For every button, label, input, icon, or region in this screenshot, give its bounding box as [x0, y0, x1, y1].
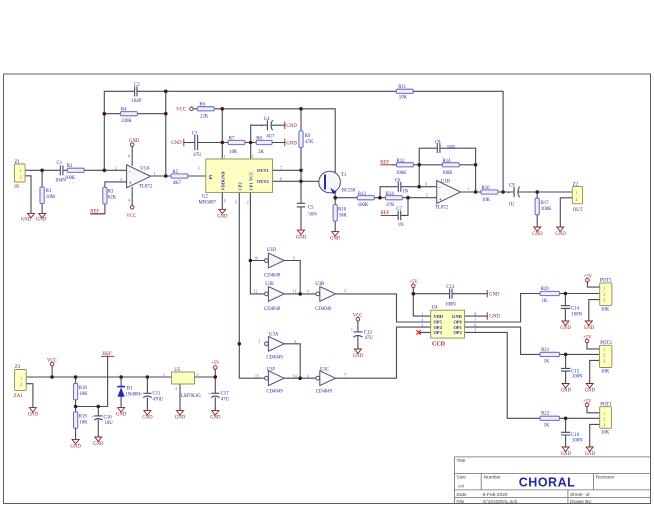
svg-text:GND: GND — [353, 354, 364, 359]
svg-text:U3E: U3E — [265, 282, 274, 287]
svg-text:100N: 100N — [445, 303, 456, 308]
svg-text:C3: C3 — [192, 131, 198, 136]
svg-text:47K: 47K — [305, 140, 314, 145]
svg-text:C4: C4 — [264, 117, 270, 122]
svg-text:1: 1 — [163, 373, 165, 377]
svg-text:GND: GND — [585, 452, 596, 457]
svg-text:2: 2 — [115, 167, 117, 171]
svg-text:5: 5 — [426, 194, 428, 198]
svg-text:2: 2 — [603, 293, 605, 297]
svg-text:R16: R16 — [482, 186, 491, 191]
svg-text:100K: 100K — [396, 171, 407, 176]
svg-text:OUT2: OUT2 — [257, 179, 269, 184]
svg-text:47K: 47K — [386, 203, 395, 208]
svg-text:Title: Title — [457, 458, 466, 464]
svg-text:3: 3 — [197, 373, 199, 377]
svg-text:1: 1 — [224, 155, 226, 159]
svg-text:62K: 62K — [108, 196, 117, 201]
svg-text:CD4049: CD4049 — [266, 389, 283, 394]
svg-text:6: 6 — [307, 374, 309, 378]
svg-text:+5V: +5V — [583, 336, 592, 341]
svg-text:2: 2 — [258, 340, 260, 344]
svg-text:10: 10 — [254, 256, 258, 260]
svg-text:100K: 100K — [65, 176, 76, 181]
svg-text:56K: 56K — [339, 214, 348, 219]
svg-text:U3A: U3A — [269, 332, 279, 337]
svg-text:R8: R8 — [256, 137, 262, 142]
svg-text:4: 4 — [307, 290, 309, 294]
svg-text:TL072: TL072 — [435, 206, 449, 211]
svg-text:4K7: 4K7 — [173, 181, 182, 186]
svg-text:3: 3 — [294, 340, 296, 344]
svg-text:OP2: OP2 — [454, 330, 462, 335]
svg-text:POT1: POT1 — [600, 403, 612, 408]
svg-text:4: 4 — [224, 199, 226, 203]
svg-text:C1: C1 — [57, 161, 63, 166]
svg-text:MN3007: MN3007 — [199, 201, 217, 206]
svg-text:7: 7 — [474, 318, 476, 322]
svg-text:47U: 47U — [193, 153, 202, 158]
svg-text:U4: U4 — [432, 306, 438, 311]
svg-text:C16: C16 — [571, 433, 580, 438]
svg-text:IN: IN — [208, 174, 213, 180]
svg-text:47U: 47U — [365, 336, 374, 341]
svg-text:22K: 22K — [200, 114, 209, 119]
svg-text:C8: C8 — [435, 141, 441, 146]
svg-text:GND: GND — [28, 413, 39, 418]
svg-text:GND: GND — [489, 315, 500, 320]
svg-text:VCC: VCC — [176, 108, 186, 113]
svg-text:U3B: U3B — [315, 282, 324, 287]
svg-text:U3F: U3F — [267, 367, 276, 372]
svg-text:10K: 10K — [482, 198, 491, 203]
svg-text:10M: 10M — [46, 195, 56, 200]
svg-text:GND: GND — [116, 413, 127, 418]
svg-text:VDD: VDD — [220, 181, 225, 191]
svg-text:GND: GND — [555, 232, 566, 237]
svg-text:6: 6 — [235, 200, 237, 204]
svg-text:7: 7 — [468, 188, 470, 192]
svg-text:R10: R10 — [338, 208, 347, 213]
svg-text:GND: GND — [584, 326, 595, 331]
svg-text:2: 2 — [247, 200, 249, 204]
svg-text:6: 6 — [474, 323, 476, 327]
svg-text:GND: GND — [36, 218, 47, 223]
svg-text:U1B: U1B — [441, 179, 450, 184]
svg-text:GND: GND — [585, 389, 596, 394]
svg-text:C5: C5 — [308, 205, 314, 210]
svg-text:1U: 1U — [509, 202, 515, 207]
svg-text:R9: R9 — [305, 134, 311, 139]
svg-text:GND: GND — [452, 314, 462, 319]
svg-text:56N: 56N — [308, 212, 317, 217]
svg-text:GND: GND — [286, 141, 297, 146]
svg-text:2: 2 — [175, 387, 177, 391]
svg-text:R13: R13 — [358, 192, 367, 197]
svg-text:100K: 100K — [442, 171, 453, 176]
svg-text:10K: 10K — [601, 370, 610, 375]
svg-text:VDD: VDD — [434, 314, 444, 319]
svg-text:POT2: POT2 — [600, 341, 612, 346]
svg-text:220K: 220K — [121, 119, 132, 124]
svg-text:33N: 33N — [446, 145, 455, 150]
svg-text:10K: 10K — [399, 96, 408, 101]
svg-text:104P: 104P — [132, 99, 142, 104]
svg-text:File: File — [457, 499, 465, 505]
svg-text:Z3: Z3 — [15, 365, 21, 370]
svg-text:4: 4 — [128, 198, 130, 202]
svg-text:+5V: +5V — [583, 275, 592, 280]
svg-text:R1: R1 — [46, 189, 52, 194]
svg-text:6: 6 — [425, 183, 427, 187]
svg-text:C17: C17 — [221, 392, 230, 397]
svg-text:7: 7 — [280, 166, 282, 170]
svg-text:OP4: OP4 — [434, 325, 443, 330]
svg-text:1K: 1K — [544, 423, 550, 428]
svg-text:4U7: 4U7 — [266, 134, 275, 139]
svg-text:3: 3 — [603, 424, 605, 428]
svg-text:+5V: +5V — [211, 361, 220, 366]
svg-text:OP3: OP3 — [434, 330, 443, 335]
svg-text:GND: GND — [560, 326, 571, 331]
svg-text:Revision: Revision — [596, 475, 615, 481]
svg-text:R19: R19 — [79, 415, 88, 420]
svg-text:+: + — [439, 198, 442, 203]
svg-text:C13: C13 — [446, 285, 455, 290]
svg-text:Drawn By:: Drawn By: — [570, 499, 592, 505]
svg-text:10K: 10K — [229, 150, 238, 155]
svg-text:C15: C15 — [571, 369, 580, 374]
svg-text:2: 2 — [603, 354, 605, 358]
svg-text:POT3: POT3 — [600, 278, 612, 283]
svg-text:CP2: CP2 — [237, 182, 242, 190]
svg-text:CD4049: CD4049 — [316, 389, 333, 394]
svg-text:2: 2 — [603, 418, 605, 422]
svg-text:TL072: TL072 — [139, 185, 153, 190]
svg-text:2: 2 — [421, 318, 423, 322]
svg-text:1: 1 — [20, 376, 22, 380]
svg-text:of: of — [586, 492, 591, 498]
svg-text:R4: R4 — [121, 108, 127, 113]
svg-text:R5: R5 — [172, 170, 178, 175]
svg-text:R20: R20 — [541, 287, 550, 292]
svg-text:C2: C2 — [134, 83, 140, 88]
svg-text:D1: D1 — [127, 387, 133, 392]
svg-text:R22: R22 — [541, 412, 550, 417]
svg-text:CD4049: CD4049 — [266, 356, 283, 361]
svg-text:VCC: VCC — [248, 172, 253, 182]
svg-text:470U: 470U — [153, 397, 164, 402]
svg-text:47U: 47U — [221, 397, 230, 402]
svg-text:1: 1 — [603, 286, 605, 290]
svg-text:C10: C10 — [104, 416, 113, 421]
svg-text:8: 8 — [280, 177, 282, 181]
svg-text:GND: GND — [129, 139, 140, 144]
svg-text:11: 11 — [293, 290, 297, 294]
svg-text:OP1: OP1 — [454, 325, 462, 330]
svg-text:CD4049: CD4049 — [315, 307, 332, 312]
svg-text:CD4049: CD4049 — [264, 273, 281, 278]
svg-text:5: 5 — [252, 155, 254, 159]
svg-text:2: 2 — [20, 383, 22, 387]
svg-text:+5V: +5V — [583, 400, 592, 405]
svg-text:1: 1 — [421, 312, 423, 316]
svg-text:R11: R11 — [398, 85, 406, 90]
svg-text:IN: IN — [14, 185, 20, 190]
svg-text:CHORAL: CHORAL — [519, 476, 575, 490]
svg-text:100N: 100N — [572, 439, 583, 444]
svg-text:1: 1 — [576, 192, 578, 196]
svg-text:1N: 1N — [398, 223, 404, 228]
svg-text:OUT1: OUT1 — [257, 168, 269, 173]
svg-text:GND: GND — [561, 452, 572, 457]
svg-text:10K: 10K — [601, 307, 610, 312]
svg-text:U3D: U3D — [267, 248, 277, 253]
svg-text:GND: GND — [171, 141, 182, 146]
svg-text:+5V: +5V — [409, 280, 418, 285]
svg-text:100N: 100N — [571, 312, 582, 317]
svg-text:S:\CHORAL.sch: S:\CHORAL.sch — [483, 499, 518, 505]
svg-text:+: + — [129, 182, 132, 187]
svg-text:GND: GND — [296, 235, 307, 240]
svg-text:3: 3 — [603, 360, 605, 364]
svg-text:ZA1: ZA1 — [14, 394, 23, 399]
svg-text:Z1: Z1 — [15, 160, 21, 165]
svg-text:R6: R6 — [199, 103, 205, 108]
svg-text:3: 3 — [120, 178, 122, 182]
svg-text:8: 8 — [474, 312, 476, 316]
svg-text:R34: R34 — [386, 192, 395, 197]
svg-text:GND: GND — [561, 389, 572, 394]
svg-text:2: 2 — [576, 198, 578, 202]
svg-text:GND: GND — [142, 416, 153, 421]
svg-text:8: 8 — [128, 154, 130, 158]
svg-text:GND: GND — [532, 232, 543, 237]
svg-text:CD4049: CD4049 — [264, 307, 281, 312]
svg-text:1: 1 — [154, 172, 156, 176]
svg-text:10K: 10K — [79, 392, 88, 397]
svg-text:VCC: VCC — [353, 313, 363, 318]
svg-text:GND: GND — [70, 444, 81, 449]
svg-text:3: 3 — [198, 166, 200, 170]
svg-text:GND: GND — [220, 172, 225, 182]
svg-text:GND: GND — [210, 416, 221, 421]
svg-text:GND: GND — [21, 218, 32, 223]
svg-text:R3: R3 — [108, 190, 114, 195]
svg-text:R21: R21 — [541, 348, 550, 353]
svg-text:10K: 10K — [79, 420, 88, 425]
svg-text:U1A: U1A — [140, 166, 150, 171]
svg-text:100K: 100K — [541, 207, 552, 212]
svg-text:CP1: CP1 — [248, 182, 253, 190]
svg-text:1K: 1K — [544, 359, 550, 364]
svg-text:GND: GND — [175, 416, 186, 421]
svg-text:U3C: U3C — [320, 367, 329, 372]
svg-text:14: 14 — [293, 374, 297, 378]
svg-text:1N: 1N — [402, 190, 408, 195]
svg-text:GND: GND — [286, 124, 297, 129]
svg-text:C7: C7 — [396, 207, 402, 212]
svg-text:3: 3 — [421, 323, 423, 327]
svg-text:2: 2 — [20, 176, 22, 180]
svg-text:CCD: CCD — [432, 342, 446, 348]
svg-text:BC550: BC550 — [342, 188, 356, 193]
svg-text:1: 1 — [603, 412, 605, 416]
svg-text:2K: 2K — [258, 150, 264, 155]
svg-text:LM78L05: LM78L05 — [181, 394, 201, 399]
svg-text:C12: C12 — [364, 331, 373, 336]
svg-text:12: 12 — [254, 290, 258, 294]
svg-text:3: 3 — [603, 299, 605, 303]
svg-text:C6: C6 — [395, 178, 401, 183]
svg-text:10K: 10K — [601, 430, 610, 435]
svg-text:Z2: Z2 — [573, 182, 579, 187]
svg-text:U2: U2 — [202, 195, 208, 200]
svg-text:10U: 10U — [105, 421, 114, 426]
svg-text:C9: C9 — [509, 183, 515, 188]
svg-text:GND: GND — [217, 214, 228, 219]
svg-text:1: 1 — [20, 169, 22, 173]
svg-text:R12: R12 — [397, 159, 406, 164]
svg-text:C14: C14 — [571, 307, 580, 312]
svg-text:100N: 100N — [572, 375, 583, 380]
svg-text:R2: R2 — [67, 164, 73, 169]
svg-text:GND: GND — [93, 442, 104, 447]
svg-text:100K: 100K — [358, 203, 369, 208]
svg-text:Sheet: Sheet — [570, 492, 583, 498]
svg-text:GND: GND — [489, 292, 500, 297]
svg-text:1: 1 — [603, 348, 605, 352]
svg-text:5: 5 — [474, 329, 476, 333]
svg-text:Number: Number — [484, 475, 501, 481]
svg-text:5-Feb-2020: 5-Feb-2020 — [483, 492, 508, 498]
svg-text:OUT: OUT — [573, 208, 583, 213]
svg-text:R18: R18 — [79, 386, 88, 391]
svg-text:Size: Size — [457, 475, 467, 481]
svg-text:R14: R14 — [443, 159, 452, 164]
svg-text:2: 2 — [344, 289, 346, 293]
svg-text:7: 7 — [344, 374, 346, 378]
svg-text:T1: T1 — [341, 173, 347, 178]
svg-text:C11: C11 — [153, 392, 161, 397]
svg-text:U5: U5 — [174, 368, 180, 373]
svg-text:A4: A4 — [458, 484, 464, 490]
svg-text:R7: R7 — [229, 137, 235, 142]
svg-text:15: 15 — [255, 374, 259, 378]
svg-text:GND: GND — [330, 237, 341, 242]
svg-text:Date: Date — [457, 492, 467, 498]
svg-text:1K: 1K — [542, 299, 548, 304]
svg-text:R17: R17 — [541, 201, 550, 206]
svg-text:VCC: VCC — [126, 214, 136, 219]
svg-text:9: 9 — [293, 256, 295, 260]
svg-text:VCC: VCC — [47, 358, 57, 363]
